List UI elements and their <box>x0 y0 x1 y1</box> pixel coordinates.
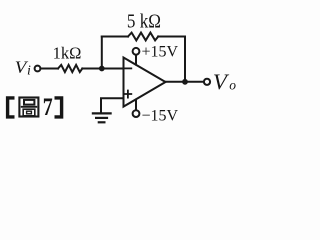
-15V terminal circle <box>133 110 140 117</box>
node B junction dot <box>182 79 188 85</box>
svg-text:V: V <box>213 69 229 93</box>
op-amp plus sign <box>125 91 132 98</box>
feedback top wire right segment <box>158 36 185 38</box>
svg-text:i: i <box>27 63 31 78</box>
wire R1 to inverting input <box>82 68 123 70</box>
+15V stem <box>135 55 137 65</box>
wire + input to ground <box>101 98 124 112</box>
output wire <box>166 81 204 83</box>
resistor R2 5kΩ <box>128 33 158 41</box>
svg-text:+15V: +15V <box>142 44 179 61</box>
feedback right vertical wire <box>184 37 186 82</box>
figure caption character 圖 <box>19 98 38 117</box>
node A junction dot <box>99 66 105 72</box>
op-amp minus sign <box>125 67 132 69</box>
figure caption bracket right 】 <box>55 96 64 118</box>
resistor R1 1kΩ <box>58 65 82 72</box>
output terminal Vo <box>204 79 210 85</box>
+15V terminal circle <box>133 48 140 55</box>
-15V stem <box>135 100 137 111</box>
svg-text:o: o <box>229 77 236 92</box>
svg-text:1kΩ: 1kΩ <box>53 44 82 63</box>
svg-text:7: 7 <box>43 92 53 120</box>
figure caption bracket left 【 <box>6 96 15 118</box>
feedback top wire left segment <box>102 36 128 38</box>
feedback left vertical wire <box>101 37 103 69</box>
svg-text:5 kΩ: 5 kΩ <box>127 11 161 34</box>
svg-text:−15V: −15V <box>142 108 179 125</box>
wire input to R1 <box>41 68 58 70</box>
input terminal Vi <box>35 66 41 72</box>
op-amp U1 <box>124 58 166 107</box>
ground <box>93 113 111 122</box>
